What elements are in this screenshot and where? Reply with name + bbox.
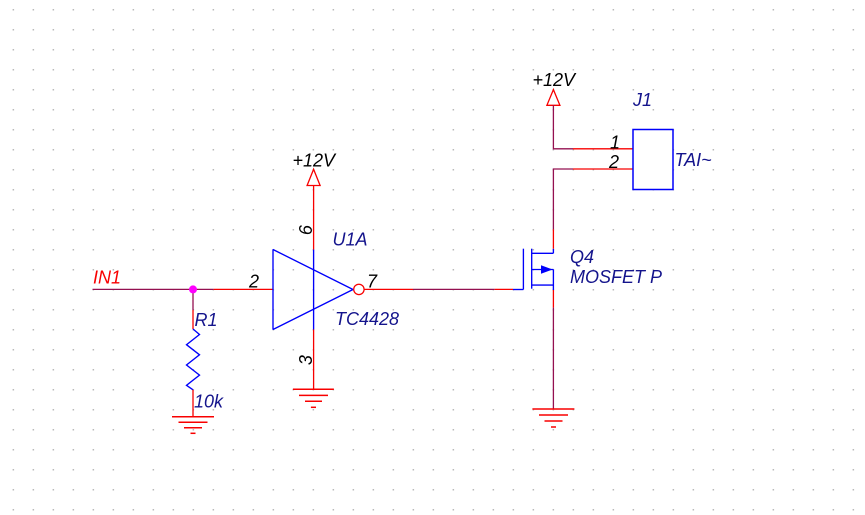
resistor R1 top pin (red): [192, 310, 194, 329]
pin 6 of U1A (red line from +12V to triangle): [313, 186, 315, 250]
Q4 arrow: [541, 265, 553, 273]
Q4 gate pin (red stub): [495, 288, 513, 290]
right rail: [552, 270, 554, 291]
svg-text:Q4: Q4: [570, 247, 594, 267]
connector J1 body: [633, 130, 673, 190]
wire +12V down and right to J1 pin1 (maroon): [553, 105, 573, 149]
power arrow (J1 +12V): [547, 90, 560, 106]
channel bar: [531, 249, 533, 289]
resistor R1 bottom pin (red): [192, 390, 194, 417]
Q4 top pin (red): [552, 229, 554, 249]
svg-text:10k: 10k: [194, 392, 224, 412]
gate bar: [522, 249, 524, 290]
svg-text:IN1: IN1: [93, 268, 121, 288]
source stub middle: [532, 269, 554, 271]
pin 7 of U1A (red stub): [364, 288, 413, 290]
Q4 bottom pin (red): [552, 290, 554, 308]
wire pin7 to Q4 gate (maroon): [413, 288, 495, 290]
pin 1 of J1 (red stub): [573, 148, 633, 150]
output inversion bubble: [354, 284, 364, 294]
drain stub top: [532, 249, 554, 254]
resistor R1 body: [187, 329, 200, 390]
svg-text:+12V: +12V: [533, 70, 578, 90]
pin 2 of J1 (red stub): [573, 168, 633, 170]
wire IN1 to junction to pin2 stub (maroon): [93, 288, 214, 290]
svg-text:1: 1: [610, 132, 620, 152]
pin 3 of U1A (red line down to ground): [313, 330, 315, 390]
ground below Q4: [532, 409, 574, 427]
svg-text:J1: J1: [632, 90, 652, 110]
gate lead: [513, 289, 523, 291]
svg-text:2: 2: [248, 272, 259, 292]
ground below U1A pin 3: [293, 389, 334, 407]
power arrow (U1A +12V): [307, 169, 320, 185]
U1A internal vertical rail: [313, 250, 315, 330]
svg-text:MOSFET P: MOSFET P: [570, 267, 662, 287]
ground below R1: [172, 417, 214, 434]
junction dot: [189, 285, 197, 293]
svg-text:+12V: +12V: [293, 151, 338, 171]
wire Q4 source down to ground (maroon): [552, 308, 554, 409]
op-amp buffer U1A body: [273, 250, 353, 330]
bulk stub bottom: [532, 284, 554, 286]
svg-text:U1A: U1A: [333, 230, 368, 250]
svg-text:6: 6: [296, 224, 316, 235]
svg-text:7: 7: [367, 272, 378, 292]
pin 2 of U1A (red stub): [214, 288, 273, 290]
svg-text:TC4428: TC4428: [335, 309, 399, 329]
wire junction down to R1 (maroon): [192, 289, 194, 310]
svg-text:TAI~: TAI~: [675, 150, 712, 170]
wire J1 pin2 left and down to Q4 (maroon): [553, 169, 573, 229]
svg-text:3: 3: [296, 355, 316, 365]
svg-text:2: 2: [608, 152, 619, 172]
transistor Q4 MOSFET P body: [513, 249, 553, 290]
svg-text:R1: R1: [195, 310, 218, 330]
